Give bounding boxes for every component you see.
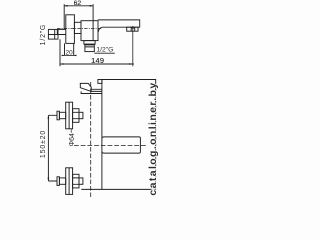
- connection 2: pipe: [59, 178, 65, 184]
- svg-text:150±20: 150±20: [40, 130, 47, 158]
- connection 1: wall bar: [57, 111, 59, 120]
- thread lines: [85, 45, 94, 47]
- connection 2: flange: [66, 168, 73, 195]
- bottom outlet collar: [84, 41, 95, 45]
- body top-left tab: [98, 80, 102, 84]
- spout arm: [98, 20, 140, 27]
- dim line 149: [60, 63, 134, 65]
- 62 left extension line: [63, 4, 65, 29]
- 62 right arrow: [90, 5, 93, 7]
- 62 left arrow: [64, 5, 67, 7]
- dashed vertical centerline: [90, 82, 92, 197]
- spout protrusion (front view): [102, 137, 140, 153]
- wall flange (side view): [66, 15, 75, 44]
- nut inner facet lines: [55, 29, 58, 39]
- connection 1: stub: [79, 112, 83, 118]
- svg-text:149: 149: [91, 56, 104, 65]
- spout underside fillet: [98, 27, 102, 32]
- lever underside line: [81, 91, 102, 93]
- 62 right extension line / body inner line: [92, 4, 94, 40]
- connection 1: pipe: [59, 112, 65, 118]
- connection 1: flange: [66, 102, 73, 129]
- dim line 20: [62, 54, 76, 56]
- connector block: [74, 22, 81, 33]
- dim 150±20 extension lines: [48, 115, 57, 181]
- body centerline dashed: [57, 28, 102, 30]
- faucet body (front view): [102, 80, 156, 190]
- outlet cross tick: [131, 27, 135, 29]
- svg-text:62: 62: [74, 0, 82, 7]
- body bottom edge extended: [81, 188, 155, 190]
- spout outlet box: [127, 27, 138, 31]
- svg-text:1/2”G: 1/2”G: [40, 24, 47, 46]
- mixer body (side view): [81, 21, 98, 41]
- connection 2: stub: [79, 178, 83, 184]
- connection 2: hex nut: [73, 174, 79, 188]
- 150 arrows: [48, 115, 50, 118]
- 1/2"G leader underline: [94, 52, 115, 54]
- 20 arrows: [62, 55, 65, 57]
- outlet centerline / 149 right extension: [132, 26, 134, 66]
- connection 1: hex nut: [73, 109, 79, 123]
- 149 left extension: [59, 39, 61, 66]
- svg-text:1/2”G: 1/2”G: [96, 47, 113, 54]
- dim 20 extension lines: [65, 43, 74, 55]
- connection 2: wall bar: [57, 177, 59, 186]
- 149 arrows: [60, 63, 63, 65]
- lever shaft: [91, 89, 102, 91]
- spout dashed centerline: [74, 145, 147, 147]
- dim line 62: [64, 5, 93, 7]
- lever handle tip: [80, 83, 91, 91]
- inlet pipe to flange: [48, 29, 65, 34]
- svg-text:20: 20: [66, 49, 74, 56]
- Φ64 leader tick: [70, 129, 72, 133]
- svg-text:catalog.onliner.by: catalog.onliner.by: [147, 81, 159, 195]
- dim line 150±20: [47, 115, 49, 181]
- bottom outlet threaded pipe: [85, 44, 94, 51]
- wall union nut (side view): [48, 29, 58, 39]
- outlet box inner lines: [131, 27, 135, 31]
- svg-text:Φ64: Φ64: [69, 133, 76, 146]
